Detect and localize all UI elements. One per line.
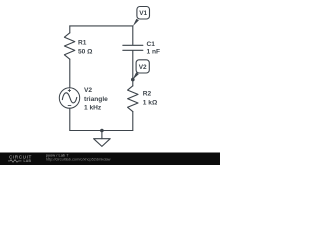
resistor R1 bbox=[64, 33, 74, 59]
svg-text:C1: C1 bbox=[147, 41, 156, 48]
wire C1 to node V2 bbox=[132, 51, 134, 86]
svg-text:V2: V2 bbox=[139, 64, 147, 71]
ground bbox=[94, 131, 111, 147]
watermark text bbox=[46, 152, 111, 161]
wire V2 source to bottom bbox=[69, 108, 71, 130]
capacitor C1 bbox=[123, 45, 143, 50]
wire right branch upper (V1 to C1) bbox=[132, 26, 134, 45]
svg-text:1 kΩ: 1 kΩ bbox=[143, 100, 158, 107]
label R1 bbox=[78, 40, 93, 56]
resistor R2 bbox=[128, 86, 138, 112]
svg-text:http://circuitlab.com/c/xhcp52: http://circuitlab.com/c/xhcp52dmkdaw bbox=[46, 156, 111, 161]
wire top horizontal (net V1) bbox=[70, 25, 133, 27]
svg-text:R2: R2 bbox=[143, 91, 152, 98]
wire bottom horizontal (ground net) bbox=[70, 130, 133, 132]
wire R2 to bottom bbox=[132, 112, 134, 131]
svg-text:50 Ω: 50 Ω bbox=[78, 48, 93, 55]
voltage source V2 bbox=[59, 88, 79, 108]
node: ground junction dot bbox=[100, 129, 104, 133]
svg-text:LAB: LAB bbox=[24, 159, 32, 163]
CircuitLab logo bbox=[8, 155, 32, 164]
svg-text:1 kHz: 1 kHz bbox=[84, 104, 102, 111]
label V2 source bbox=[84, 87, 108, 111]
wire R1 to V2 source bbox=[69, 59, 71, 88]
label C1 bbox=[147, 41, 161, 55]
svg-text:triangle: triangle bbox=[84, 96, 108, 103]
svg-text:V1: V1 bbox=[139, 10, 147, 17]
wire left branch upper bbox=[69, 26, 71, 33]
label R2 bbox=[143, 91, 158, 107]
svg-text:V2: V2 bbox=[84, 87, 92, 94]
node: V2 junction dot bbox=[131, 78, 135, 82]
node flag V1 bbox=[133, 7, 150, 27]
node flag V2 bbox=[133, 60, 150, 80]
watermark bar bbox=[0, 153, 220, 166]
svg-text:1 nF: 1 nF bbox=[147, 49, 161, 56]
svg-text:R1: R1 bbox=[78, 40, 87, 47]
